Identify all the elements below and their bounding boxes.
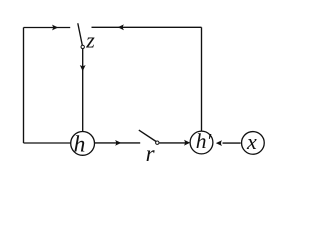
wire node h to switch r [95, 142, 141, 144]
node x circle [242, 132, 265, 155]
wire top-left horizontal (h feedback into switch z) [24, 27, 71, 29]
node h circle [71, 132, 95, 156]
wire left vertical [23, 28, 25, 144]
wire bottom-left horizontal (to node h) [24, 142, 71, 144]
switch z blade [78, 23, 83, 45]
arrowhead left on top-right wire [118, 24, 124, 30]
arrowhead right on h-to-r wire [115, 140, 121, 146]
wire node x to node h' [223, 142, 241, 144]
svg-text:x: x [246, 129, 257, 154]
arrowhead down on switch z output wire [80, 65, 86, 71]
wire top-right horizontal (from h' into switch z) [92, 26, 202, 28]
switch z hinge pivot [81, 45, 84, 48]
arrowhead right on top-left wire [52, 25, 58, 31]
svg-text:z: z [85, 28, 95, 53]
switch r hinge pivot [156, 141, 159, 144]
svg-text:h: h [74, 132, 86, 158]
wire right vertical (h' up to top) [201, 27, 203, 131]
switch r blade [139, 130, 156, 141]
wire switch r hinge to node h' [159, 142, 185, 144]
arrowhead left into node h' from x [216, 140, 222, 146]
svg-text:h′: h′ [196, 129, 212, 153]
arrowhead right into node h' [184, 140, 190, 146]
node h' circle [190, 131, 213, 154]
svg-text:r: r [146, 141, 156, 166]
wire switch z hinge down to node h [82, 49, 84, 132]
